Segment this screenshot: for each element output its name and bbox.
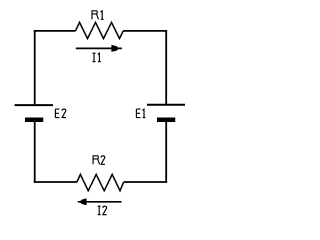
label R1 xyxy=(92,11,104,19)
wire right rail upper segment xyxy=(165,30,167,105)
current arrow I1 shaft xyxy=(76,47,122,49)
wire left rail lower segment xyxy=(34,122,36,183)
battery E2 short plate xyxy=(25,117,43,122)
label I1 xyxy=(93,53,101,62)
current arrow I1 head xyxy=(111,45,118,52)
resistor R2 xyxy=(77,174,124,190)
wire right rail lower segment xyxy=(165,122,167,183)
wire bottom rail right segment xyxy=(124,181,168,183)
wire top rail right segment xyxy=(123,30,167,32)
wire left rail upper segment xyxy=(34,30,36,105)
battery E1 long plate xyxy=(147,104,185,106)
wire bottom rail left segment xyxy=(34,181,77,183)
label E1 xyxy=(136,109,145,118)
battery E1 short plate xyxy=(157,117,175,122)
wire top rail left segment xyxy=(34,30,76,32)
label I2 xyxy=(98,206,107,215)
current arrow I2 head xyxy=(80,198,86,205)
current arrow I2 shaft xyxy=(78,201,122,203)
label R2 xyxy=(93,156,105,165)
label E2 xyxy=(55,109,66,118)
battery E2 long plate xyxy=(15,104,53,106)
resistor R1 xyxy=(76,22,124,38)
